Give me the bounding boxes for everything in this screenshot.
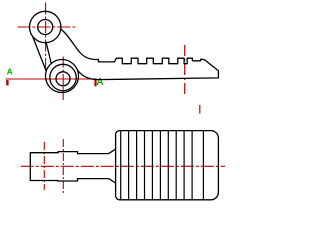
link right tangent [46,42,51,64]
centerline vertical boss1 [45,3,47,72]
shaft profile with key ring [30,152,108,181]
centerline vertical boss2 [62,57,64,101]
arrow left A [6,80,8,86]
boss U1 outer circle [30,11,61,42]
centerline vertical teeth [184,45,186,97]
svg-text:A: A [96,77,103,88]
centerline horizontal boss1 [17,26,76,28]
centerline x=63.3 [62,139,64,194]
boss2 outer circle [46,60,79,93]
boss U1 hole [38,20,53,35]
rib lines [121,131,204,200]
knurled body [116,131,219,200]
centerline x=44.3 [43,142,45,190]
arrow right A [94,78,96,86]
outline body [33,29,219,79]
boss2 middle circle [50,64,76,90]
flare bottom [109,179,116,184]
svg-text:A: A [7,67,13,77]
centerline horizontal bottom [21,165,225,167]
boss2 hole [56,72,70,86]
tick above body [199,105,201,114]
section line A-A [6,78,95,80]
flare top [109,148,116,153]
